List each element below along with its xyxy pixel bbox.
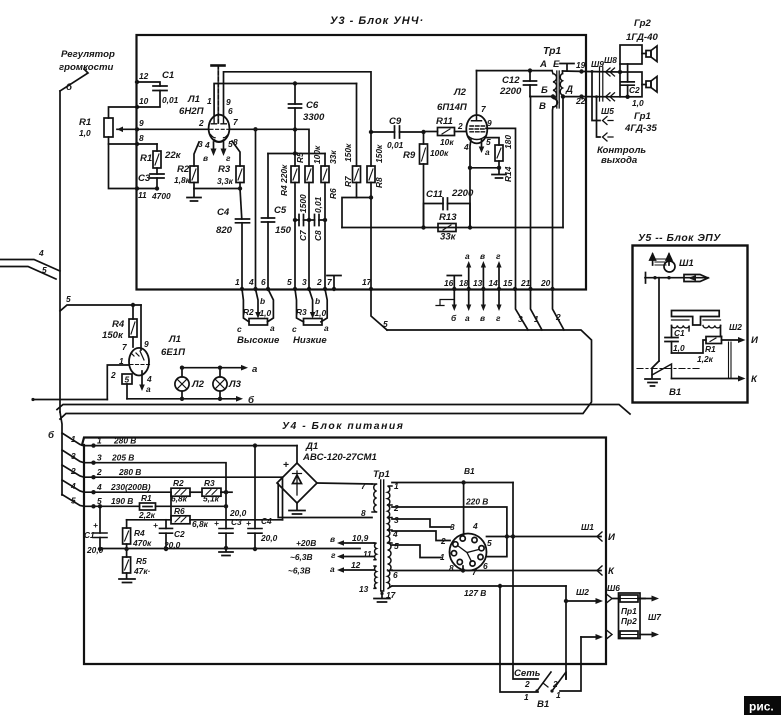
svg-text:R1: R1: [705, 344, 716, 354]
capacitor C12 2200: [529, 71, 531, 81]
svg-text:7: 7: [481, 104, 486, 114]
Sh2 upper arrow: [566, 600, 596, 602]
U3 block box: [137, 35, 587, 290]
pot R3 Nizkie: [295, 289, 304, 322]
svg-text:Л3: Л3: [228, 379, 242, 390]
terminal 13: [481, 287, 485, 291]
svg-text:1500: 1500: [298, 194, 308, 213]
wire I to Sh1: [487, 536, 602, 538]
svg-text:5: 5: [66, 294, 71, 304]
stylus arrow body: [684, 275, 708, 282]
resistor R2' 6,8k: [171, 488, 190, 496]
svg-text:2200: 2200: [451, 188, 474, 199]
svg-text:1,0: 1,0: [315, 308, 327, 318]
lamp net b: [127, 398, 237, 400]
wire D tap to 22: [563, 95, 586, 96]
wire treble wiper column to terminal 4: [255, 129, 257, 289]
svg-text:R5: R5: [295, 152, 305, 163]
terminal 18: [467, 287, 471, 291]
svg-text:150к: 150к: [343, 143, 353, 162]
svg-text:33к: 33к: [440, 232, 457, 243]
capacitor C1 1,0 (U5): [671, 326, 673, 338]
common bus wire: [100, 548, 360, 550]
svg-text:7: 7: [327, 277, 332, 287]
wire 8 to pot bottom: [109, 143, 138, 145]
svg-text:12: 12: [139, 71, 149, 81]
terminal 9: [135, 127, 139, 131]
svg-text:Ш1: Ш1: [581, 522, 594, 532]
lamp L3: [213, 377, 227, 391]
svg-text:150к: 150к: [102, 330, 124, 341]
terminal 6: [266, 287, 270, 291]
wire L2 screen to col 516: [486, 128, 516, 289]
svg-text:4: 4: [146, 374, 152, 384]
wire K to Sh1: [392, 570, 601, 572]
svg-text:С5: С5: [274, 205, 287, 216]
cable pair down: [729, 342, 732, 379]
potentiometer R1 1,0 volume: [104, 118, 113, 137]
resistor R4 150k: [132, 305, 134, 319]
svg-text:4ГД-35: 4ГД-35: [624, 123, 657, 134]
svg-text:1: 1: [534, 314, 539, 324]
svg-text:Ш2: Ш2: [576, 587, 589, 597]
svg-text:Низкие: Низкие: [293, 335, 327, 346]
motor coil left: [672, 326, 690, 332]
svg-text:а: а: [252, 364, 258, 375]
svg-text:С2: С2: [174, 529, 185, 539]
svg-text:4: 4: [70, 481, 76, 491]
Sh2 lower arrow: [581, 636, 596, 638]
svg-text:Сеть: Сеть: [514, 668, 541, 679]
svg-text:7: 7: [233, 117, 238, 127]
arrow v (13): [482, 265, 484, 307]
svg-text:0,01: 0,01: [162, 95, 179, 105]
svg-text:Тр1: Тр1: [373, 469, 390, 480]
svg-text:4: 4: [472, 521, 478, 531]
capacitor C3 4700: [156, 168, 158, 174]
svg-text:Ш7: Ш7: [648, 612, 661, 622]
wire L2 cathode-grid3 junction: [470, 139, 499, 168]
bus branch wire 2: [62, 465, 84, 477]
svg-text:С1: С1: [162, 70, 174, 81]
svg-text:127 В: 127 В: [464, 588, 486, 598]
capacitor C8 0,01: [309, 219, 325, 221]
svg-text:R7: R7: [343, 176, 353, 187]
wire V1 net pin1 to socket: [392, 482, 513, 484]
resistor R3 3,3k: [232, 141, 240, 166]
svg-text:Л2: Л2: [453, 87, 467, 98]
wire left bus vertical: [59, 91, 61, 412]
svg-text:13: 13: [473, 278, 483, 288]
svg-text:б: б: [451, 313, 457, 323]
svg-text:+: +: [93, 520, 98, 530]
page wire b: [33, 399, 108, 401]
svg-text:б: б: [48, 430, 55, 441]
svg-text:5: 5: [287, 277, 292, 287]
svg-text:R2: R2: [173, 478, 184, 488]
wire pickup down: [658, 278, 660, 361]
svg-text:5: 5: [394, 541, 399, 551]
bus branch wire 3: [62, 450, 84, 463]
capacitor C11 2200: [424, 204, 471, 228]
resistor R8 150k: [367, 166, 375, 183]
arrow b (16) down only with bracket: [453, 289, 455, 307]
connector Sh9/Sh8 bars: [600, 67, 603, 101]
svg-text:Ш8: Ш8: [604, 55, 617, 65]
U4 block box: [82, 438, 606, 665]
resistor R2 1,8k: [194, 142, 199, 166]
wire 4 230(200V): [84, 491, 171, 493]
terminal 7 with shield cap: [332, 287, 336, 291]
svg-text:Ш9: Ш9: [591, 59, 604, 69]
svg-text:6: 6: [483, 561, 488, 571]
cathode arrow a of 6E1P: [141, 371, 143, 386]
svg-text:а: а: [485, 147, 490, 157]
wire 5 from left edge: [0, 267, 56, 280]
svg-text:а: а: [330, 564, 335, 574]
svg-text:230(200В): 230(200В): [110, 482, 151, 492]
svg-text:1,2к: 1,2к: [697, 354, 714, 364]
svg-text:0,01: 0,01: [313, 196, 323, 213]
wire cathode junction: [194, 188, 240, 190]
wire E tap to 19: [563, 70, 587, 73]
wire net19 to speakers: [586, 71, 620, 74]
svg-text:R5: R5: [136, 556, 147, 566]
core power transformer: [381, 480, 384, 591]
capacitor C2 1,0: [627, 64, 629, 82]
svg-text:в: в: [480, 313, 485, 323]
svg-text:8: 8: [361, 508, 366, 518]
wire anode B (y=83.5): [214, 84, 356, 117]
ground below R5': [119, 579, 135, 583]
svg-text:С6: С6: [306, 100, 319, 111]
svg-text:+: +: [153, 520, 158, 530]
svg-text:С1: С1: [84, 530, 95, 540]
svg-text:С2: С2: [629, 85, 640, 95]
svg-text:b: b: [315, 296, 320, 306]
coil right to R1: [721, 326, 722, 337]
fuse Pr2: [620, 631, 638, 638]
terminal 3: [307, 287, 311, 291]
svg-text:Е: Е: [553, 59, 560, 70]
svg-text:280 В: 280 В: [118, 467, 141, 477]
svg-text:+: +: [214, 518, 219, 528]
svg-text:R11: R11: [436, 116, 453, 127]
core ground: [374, 591, 390, 602]
svg-text:И: И: [751, 335, 759, 346]
svg-text:10: 10: [139, 96, 149, 106]
svg-text:13: 13: [359, 584, 369, 594]
svg-text:4: 4: [463, 142, 469, 152]
switch V1 (U5): [652, 361, 659, 378]
svg-text:R1: R1: [140, 153, 152, 164]
wire pin8 row: [278, 484, 372, 518]
svg-text:b: b: [260, 296, 265, 306]
wire 3 205V: [84, 463, 226, 529]
svg-text:В1: В1: [537, 699, 549, 710]
svg-text:6,8к: 6,8к: [171, 494, 188, 504]
svg-text:Пр2: Пр2: [621, 616, 637, 626]
svg-text:15: 15: [503, 278, 513, 288]
Sh6 chevrons: [607, 595, 612, 639]
svg-text:3,3к: 3,3к: [217, 176, 234, 186]
fuse box: [619, 593, 641, 639]
resistor R6 33k: [324, 154, 326, 167]
wire anode to A tap: [477, 70, 553, 72]
svg-text:2: 2: [393, 503, 399, 513]
tube L1 6N2P: [209, 115, 230, 142]
svg-text:У3 - Блок УНЧ·: У3 - Блок УНЧ·: [330, 15, 424, 27]
mains wire down A: [513, 537, 538, 680]
cathode arrow a of L2: [481, 139, 483, 148]
svg-text:В1: В1: [669, 387, 681, 398]
svg-text:14: 14: [489, 278, 499, 288]
heater arrows: [341, 542, 374, 544]
svg-text:6П14П: 6П14П: [437, 102, 468, 113]
mains wire down C: [565, 586, 567, 679]
svg-text:820: 820: [216, 225, 233, 236]
svg-text:5: 5: [125, 375, 130, 385]
svg-text:5: 5: [42, 265, 47, 275]
terminal 12: [135, 80, 139, 84]
svg-text:1: 1: [207, 96, 212, 106]
terminal 11: [135, 186, 139, 190]
svg-text:+: +: [246, 518, 251, 528]
wire 220V pin2 path: [392, 507, 507, 557]
wire R3' node to bridge AC: [221, 491, 226, 493]
NFB wire y=227.5: [342, 227, 563, 229]
svg-text:Л2: Л2: [191, 379, 205, 390]
svg-text:12: 12: [351, 560, 361, 570]
svg-text:И: И: [608, 532, 616, 543]
wire grid (y=129.3 from terminal 9): [137, 129, 309, 166]
svg-text:R4: R4: [112, 319, 125, 330]
capacitor C2' 20,0: [165, 520, 167, 529]
svg-text:6Н2П: 6Н2П: [179, 106, 205, 117]
svg-text:180: 180: [503, 135, 513, 149]
svg-text:4: 4: [96, 482, 102, 492]
wire 2 280V: [84, 476, 283, 478]
ground below R14: [492, 168, 506, 178]
svg-text:~6,3В: ~6,3В: [288, 566, 311, 576]
wire b diagonal top-left: [60, 69, 88, 91]
svg-text:2: 2: [524, 679, 530, 689]
capacitor C4 820: [240, 189, 242, 220]
svg-text:2: 2: [198, 118, 204, 128]
resistor R13 33k: [438, 224, 456, 232]
svg-text:С9: С9: [389, 116, 402, 127]
svg-text:2: 2: [457, 121, 463, 131]
svg-text:R4 220к: R4 220к: [279, 164, 289, 196]
svg-text:20: 20: [540, 278, 551, 288]
wire K out of U5: [672, 378, 740, 380]
svg-text:3: 3: [394, 515, 399, 525]
svg-text:с: с: [237, 324, 242, 334]
ground below R2: [187, 189, 201, 202]
svg-text:9: 9: [139, 118, 144, 128]
svg-text:В1: В1: [464, 466, 475, 476]
svg-text:100к: 100к: [430, 148, 449, 158]
wire AC right vertex to pin7: [317, 483, 372, 484]
svg-text:1,0: 1,0: [673, 343, 685, 353]
tube L1 6E1P: [129, 348, 149, 376]
svg-text:б: б: [66, 82, 73, 93]
grid cap shield symbol: [217, 66, 219, 124]
svg-text:У4 - Блок питания: У4 - Блок питания: [282, 421, 404, 432]
svg-text:R6: R6: [174, 506, 185, 516]
terminal 5: [293, 287, 297, 291]
svg-text:Ш1: Ш1: [679, 258, 694, 269]
svg-text:1: 1: [97, 436, 102, 446]
svg-text:Д1: Д1: [305, 441, 318, 452]
wire 1 from terminal 20: [531, 289, 543, 330]
svg-text:17: 17: [386, 590, 396, 600]
wire 4 from left edge: [0, 260, 60, 272]
svg-text:а: а: [146, 384, 151, 394]
resistor R1 1,2k (U5): [672, 340, 707, 353]
wire pin4 to socket: [392, 531, 450, 541]
svg-text:470к: 470к: [132, 538, 152, 548]
svg-text:3: 3: [71, 451, 76, 461]
terminal 17: [369, 287, 373, 291]
wire 1 280V: [84, 445, 297, 447]
wire 3 from terminal 21: [516, 289, 529, 330]
wire 205V tap down to R6': [282, 477, 284, 520]
svg-text:21: 21: [520, 278, 531, 288]
svg-text:3: 3: [302, 277, 307, 287]
svg-text:1: 1: [235, 277, 240, 287]
svg-text:в: в: [330, 534, 335, 544]
bridge minus to chassis: [289, 503, 305, 514]
svg-text:6: 6: [228, 106, 233, 116]
wire B-tap down to terminal 20: [530, 97, 532, 290]
svg-text:4700: 4700: [151, 191, 171, 201]
svg-text:1,8к: 1,8к: [174, 175, 191, 185]
svg-text:5: 5: [383, 319, 388, 329]
resistor R6' 6,8k: [171, 516, 190, 524]
svg-text:11: 11: [138, 190, 147, 200]
capacitor C1' 20,0: [98, 504, 102, 508]
svg-text:С1: С1: [674, 328, 685, 338]
pickup cartridge: [650, 254, 656, 265]
resistor R11 10k: [424, 131, 438, 133]
svg-text:10к: 10к: [440, 137, 454, 147]
resistor R1' 2,2k: [140, 503, 156, 510]
svg-text:2200: 2200: [499, 86, 522, 97]
capacitor C9 0,01: [371, 131, 424, 133]
svg-text:8: 8: [139, 133, 144, 143]
terminal 16 with shield cap: [452, 287, 456, 291]
connector chevrons on net22: [606, 93, 615, 101]
svg-text:С3: С3: [138, 173, 151, 184]
svg-text:6: 6: [393, 570, 398, 580]
wire pin5 to socket: [392, 545, 441, 558]
svg-text:Тр1: Тр1: [543, 46, 561, 57]
motor top bracket: [672, 311, 720, 326]
fuse out arrows Sh7: [640, 598, 653, 600]
bus branch wire 5: [62, 495, 84, 507]
svg-text:1: 1: [524, 692, 529, 702]
svg-text:150к: 150к: [374, 144, 384, 163]
mains wire down B: [500, 586, 538, 692]
svg-text:С3: С3: [231, 517, 242, 527]
svg-text:47к·: 47к·: [133, 566, 151, 576]
svg-text:5: 5: [487, 538, 492, 548]
svg-text:11: 11: [363, 549, 372, 559]
rectifier D1 bridge: [277, 463, 317, 503]
svg-text:1: 1: [556, 690, 561, 700]
svg-text:Ш2: Ш2: [729, 322, 742, 332]
resistor R5' 47k: [123, 557, 131, 573]
svg-text:10,9: 10,9: [352, 533, 369, 543]
svg-text:R3: R3: [218, 164, 231, 175]
svg-text:2: 2: [555, 312, 561, 322]
svg-text:~6,3В: ~6,3В: [290, 552, 313, 562]
svg-text:5: 5: [71, 496, 76, 506]
speaker Gr1 4GD-35: [620, 72, 642, 97]
terminal 1: [240, 287, 244, 291]
wire anode A (y=71.8): [224, 72, 372, 132]
svg-text:R4: R4: [134, 528, 145, 538]
svg-text:С4: С4: [261, 516, 272, 526]
svg-text:R6: R6: [328, 188, 338, 199]
svg-text:8: 8: [449, 563, 454, 573]
terminal 10: [135, 105, 139, 109]
svg-text:22к: 22к: [164, 150, 182, 161]
heater winding 9-11: [374, 543, 377, 560]
svg-text:С4: С4: [217, 207, 230, 218]
svg-text:190 В: 190 В: [111, 496, 133, 506]
svg-text:R8: R8: [374, 177, 384, 188]
svg-text:Д: Д: [565, 84, 573, 95]
svg-text:9: 9: [144, 339, 149, 349]
svg-text:5,1к: 5,1к: [203, 494, 220, 504]
label Регулятор громкости: [59, 49, 115, 73]
heater winding 12-13: [374, 566, 377, 588]
wire bus to tube top: [140, 305, 142, 350]
svg-text:280 В: 280 В: [113, 436, 136, 446]
svg-text:205 В: 205 В: [111, 453, 134, 463]
chassis ground (U5): [645, 379, 660, 386]
svg-text:+: +: [283, 460, 289, 471]
svg-text:С8: С8: [313, 230, 323, 241]
svg-text:R3: R3: [204, 478, 215, 488]
svg-text:С11: С11: [426, 189, 443, 200]
svg-text:3: 3: [97, 453, 102, 463]
terminal 4: [253, 287, 257, 291]
svg-text:2: 2: [70, 466, 76, 476]
svg-text:А: А: [539, 59, 547, 70]
svg-text:33к: 33к: [328, 150, 338, 164]
svg-text:0,01: 0,01: [387, 140, 404, 150]
svg-text:R9: R9: [403, 150, 416, 161]
connector chevrons on net19: [606, 68, 615, 76]
svg-text:1ГД-40: 1ГД-40: [626, 32, 658, 43]
svg-text:16: 16: [444, 278, 454, 288]
svg-text:R1: R1: [79, 117, 91, 128]
tonearm line: [645, 277, 708, 279]
resistor R14 180: [487, 138, 499, 145]
svg-text:Л1: Л1: [187, 94, 200, 105]
resistor R4 220k: [294, 130, 296, 167]
svg-text:с: с: [292, 324, 297, 334]
svg-text:4: 4: [204, 140, 210, 150]
arrow a (18): [468, 265, 470, 307]
svg-text:а: а: [270, 323, 275, 333]
terminal 14: [497, 287, 501, 291]
svg-text:22: 22: [575, 96, 586, 106]
resistor R5 100k: [305, 166, 313, 183]
